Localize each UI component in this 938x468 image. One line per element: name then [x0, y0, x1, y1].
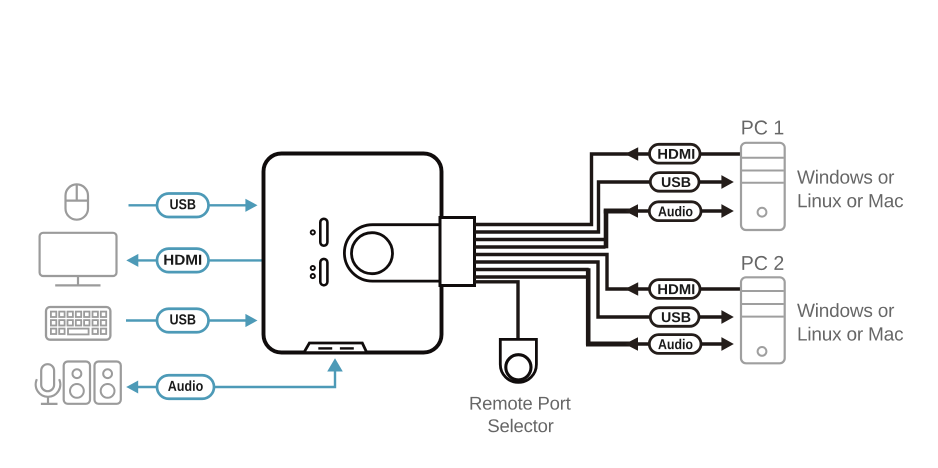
cable audio-a PC2 [475, 268, 589, 271]
arrowhead Audio left [126, 381, 138, 394]
audio pair riser PC2 [586, 268, 591, 345]
pill USB PC2 [650, 308, 699, 327]
port pill 2 [320, 259, 327, 285]
port pill 1 [320, 219, 327, 246]
pill Audio PC2 [649, 335, 701, 354]
port selection button [352, 233, 393, 274]
remote selector button [506, 355, 531, 380]
pill USB (mouse) [157, 194, 209, 218]
cable HDMI PC2 [475, 255, 650, 290]
mouse icon [66, 184, 89, 219]
cable USB PC2 [475, 262, 651, 317]
arrowhead Audio PC1 into tower [721, 204, 733, 218]
pill HDMI PC2 [650, 280, 701, 299]
PC 1 tower [741, 143, 785, 230]
pill Audio (speakers) [157, 375, 214, 399]
cable connector block [440, 218, 475, 286]
arrowhead USB PC2 into tower [721, 310, 733, 324]
wire USB PC1 to tower [699, 180, 723, 183]
cable audio-b PC1 [475, 245, 606, 248]
label Remote Port [471, 397, 571, 410]
speaker 1 icon [64, 362, 90, 404]
wire Audio PC1 to tower [701, 209, 723, 212]
KVM switch body [264, 154, 442, 353]
audio pair run PC1 [604, 209, 630, 214]
pill HDMI PC1 [650, 144, 701, 163]
wire USB PC2 to tower [699, 315, 723, 318]
slot dash 2 [340, 347, 354, 349]
arrowhead HDMI PC1 toward switch [625, 147, 638, 161]
pill USB PC1 [650, 173, 699, 192]
LED 2a [311, 266, 315, 270]
label PC 2 [742, 256, 783, 270]
wire USB keyboard to switch [126, 319, 250, 321]
audio pair run PC2 [586, 342, 630, 347]
cable audio-a PC1 [475, 238, 606, 241]
label Selector [488, 419, 553, 433]
wire HDMI monitor to switch [137, 259, 264, 261]
PC 2 tower [741, 277, 785, 363]
arrowhead HDMI left [126, 254, 138, 267]
audio pair riser PC1 [604, 210, 609, 248]
speaker 2 icon [95, 362, 121, 404]
arrowhead Audio PC2 toward switch [625, 337, 638, 351]
pill Audio PC1 [649, 202, 701, 221]
cable HDMI PC1 [475, 154, 650, 225]
wire Audio PC2 to tower [701, 342, 723, 345]
cable audio-b PC2 [475, 275, 589, 278]
pill HDMI (monitor) [157, 249, 209, 273]
bottom slot [304, 343, 367, 353]
pill USB (keyboard) [157, 309, 209, 333]
LED 2b [311, 274, 315, 278]
arrowhead USB keyboard right [245, 314, 257, 327]
arrowhead USB PC1 into tower [721, 175, 733, 189]
cable USB PC1 [475, 182, 651, 232]
microphone icon [36, 364, 61, 404]
arrowhead Audio PC1 toward switch [625, 204, 638, 218]
arrowhead Audio up into switch [327, 358, 343, 371]
wire Audio speakers from switch [137, 369, 335, 387]
wire HDMI PC2 to tower [700, 287, 742, 290]
button stadium [344, 225, 441, 281]
keyboard icon [46, 307, 110, 340]
cable remote selector [475, 282, 519, 340]
LED 1 [311, 230, 315, 234]
wire HDMI PC1 to tower [700, 152, 742, 155]
arrowhead USB mouse right [245, 199, 257, 212]
remote port selector body [500, 339, 536, 382]
wire USB mouse to switch [129, 204, 251, 206]
slot dash 1 [318, 347, 332, 349]
label Windows or Linux or Mac (PC2) [797, 303, 894, 317]
label PC 1 [742, 120, 783, 134]
monitor icon [40, 233, 117, 286]
arrowhead Audio PC2 into tower [721, 337, 733, 351]
label Windows or Linux or Mac (PC1) [797, 170, 894, 184]
arrowhead HDMI PC2 toward switch [625, 282, 638, 296]
